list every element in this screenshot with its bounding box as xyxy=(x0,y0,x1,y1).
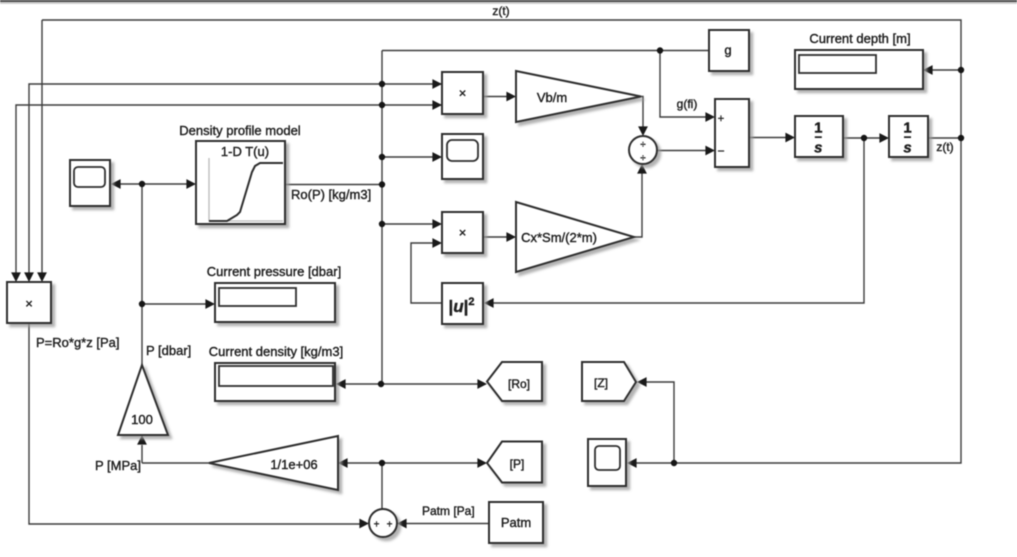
svg-text:×: × xyxy=(25,296,33,311)
svg-text:+: + xyxy=(374,520,380,531)
svg-text:Vb/m: Vb/m xyxy=(537,90,567,105)
svg-text:[Ro]: [Ro] xyxy=(508,377,530,391)
svg-text:[Z]: [Z] xyxy=(594,376,608,390)
svg-text:Current density [kg/m3]: Current density [kg/m3] xyxy=(209,344,343,359)
svg-text:s: s xyxy=(903,140,911,157)
svg-text:+: + xyxy=(718,113,724,125)
svg-text:[P]: [P] xyxy=(510,457,525,471)
svg-text:+: + xyxy=(387,520,393,531)
svg-text:Cx*Sm/(2*m): Cx*Sm/(2*m) xyxy=(521,230,597,245)
svg-text:1: 1 xyxy=(903,120,911,137)
svg-text:×: × xyxy=(459,86,467,101)
svg-text:P=Ro*g*z [Pa]: P=Ro*g*z [Pa] xyxy=(36,335,119,350)
svg-text:P [MPa]: P [MPa] xyxy=(95,458,141,473)
svg-text:Current depth [m]: Current depth [m] xyxy=(809,31,910,46)
svg-text:z(t): z(t) xyxy=(936,140,953,154)
svg-text:Density profile model: Density profile model xyxy=(179,123,300,138)
svg-text:Patm: Patm xyxy=(501,515,531,530)
svg-text:1: 1 xyxy=(814,120,822,137)
svg-text:s: s xyxy=(814,140,822,157)
svg-text:×: × xyxy=(459,225,467,240)
svg-text:Ro(P) [kg/m3]: Ro(P) [kg/m3] xyxy=(291,187,371,202)
svg-text:Patm [Pa]: Patm [Pa] xyxy=(422,504,475,518)
svg-text:÷: ÷ xyxy=(640,140,646,151)
svg-text:1/1e+06: 1/1e+06 xyxy=(270,457,317,472)
svg-text:P [dbar]: P [dbar] xyxy=(146,343,191,358)
svg-text:100: 100 xyxy=(131,412,153,427)
svg-text:÷: ÷ xyxy=(640,153,646,164)
svg-text:−: − xyxy=(717,144,724,158)
svg-text:g: g xyxy=(724,43,731,58)
svg-text:Current pressure [dbar]: Current pressure [dbar] xyxy=(207,264,341,279)
svg-text:1-D T(u): 1-D T(u) xyxy=(221,144,269,159)
svg-text:z(t): z(t) xyxy=(492,4,509,18)
svg-text:g(fi): g(fi) xyxy=(677,97,698,111)
